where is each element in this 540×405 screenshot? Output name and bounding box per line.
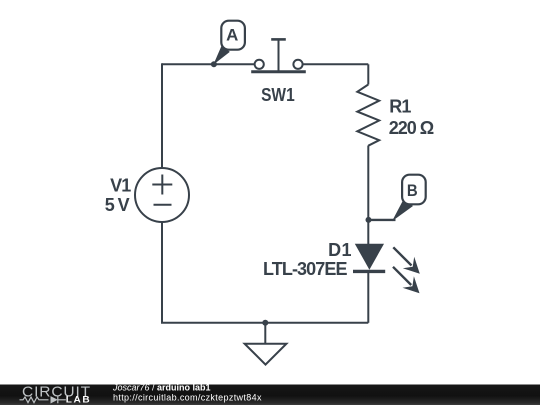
svg-text:V: V bbox=[118, 195, 130, 215]
svg-text:5: 5 bbox=[105, 195, 115, 215]
wire left vertical lower bbox=[161, 222, 163, 323]
svg-text:LAB: LAB bbox=[66, 394, 92, 405]
svg-text:B: B bbox=[407, 181, 418, 200]
LED arrow 2 bbox=[393, 267, 420, 294]
wire bottom horizontal bbox=[161, 322, 368, 324]
voltage source V1 bbox=[135, 168, 189, 222]
svg-text:220 Ω: 220 Ω bbox=[389, 118, 434, 138]
label R1 value bbox=[389, 97, 434, 139]
resistor R1 bbox=[357, 85, 379, 146]
svg-text:Joscar76 / arduino lab1: Joscar76 / arduino lab1 bbox=[112, 383, 211, 393]
LED D1 bbox=[353, 244, 385, 272]
junction dot A bbox=[211, 61, 217, 67]
svg-text:LTL-307EE: LTL-307EE bbox=[263, 259, 348, 279]
svg-text:A: A bbox=[226, 27, 238, 45]
svg-text:D: D bbox=[328, 240, 341, 260]
circuitlab logo diode bbox=[51, 396, 58, 403]
svg-text:http://circuitlab.com/czktepzt: http://circuitlab.com/czktepztwt84x bbox=[113, 392, 262, 402]
node A flag bbox=[213, 21, 245, 65]
svg-text:SW1: SW1 bbox=[261, 85, 295, 105]
wire right vertical middle bbox=[367, 146, 369, 245]
label V1 value bbox=[105, 175, 131, 215]
svg-text:R: R bbox=[389, 97, 402, 117]
label D1 value bbox=[263, 240, 352, 279]
node B flag bbox=[369, 175, 426, 222]
wire top-right horizontal bbox=[303, 63, 369, 65]
wire right vertical lower bbox=[367, 272, 369, 323]
circuitlab logo squiggle bbox=[20, 396, 66, 403]
wire right vertical upper bbox=[367, 64, 369, 84]
LED arrow 1 bbox=[393, 247, 420, 273]
junction dot B bbox=[366, 217, 372, 223]
wire top-left horizontal bbox=[162, 63, 255, 65]
ground bbox=[245, 323, 287, 365]
wire left vertical upper bbox=[161, 63, 163, 168]
svg-text:1: 1 bbox=[121, 175, 131, 195]
switch SW1 bbox=[251, 39, 306, 71]
svg-text:1: 1 bbox=[401, 97, 411, 117]
junction dot ground bbox=[262, 320, 268, 326]
svg-text:1: 1 bbox=[342, 240, 352, 260]
